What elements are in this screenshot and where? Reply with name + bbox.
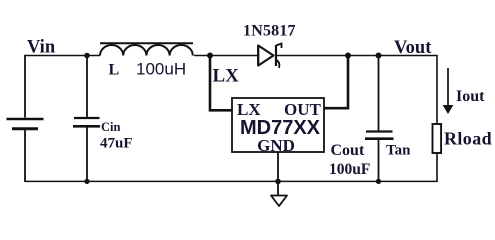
junction: Cin/ground rail node — [84, 179, 89, 184]
diode D1 1N5817 (Schottky) — [258, 44, 281, 69]
wire: Cout bottom lead to ground rail — [378, 140, 380, 182]
svg-text:100uF: 100uF — [329, 161, 370, 178]
wire: ground rail (bottom) — [25, 180, 437, 182]
junction: Vin/Cin node on top rail — [84, 53, 90, 59]
svg-text:47uF: 47uF — [100, 136, 133, 152]
svg-text:Iout: Iout — [456, 88, 485, 105]
wire: top rail from diode cathode to Vout corner — [277, 55, 437, 57]
capacitor Cin — [73, 118, 100, 126]
capacitor Cout (tantalum) — [365, 132, 394, 139]
svg-text:Vout: Vout — [394, 38, 432, 58]
wire: Cout top lead — [378, 56, 380, 131]
wire: top rail from inductor right terminal to diode anode — [194, 55, 258, 57]
svg-text:GND: GND — [257, 136, 295, 155]
IC U1 MD77XX body — [232, 98, 324, 152]
wire: IC OUT pin right and up to output node — [324, 56, 348, 109]
wire: Rload bottom lead to ground rail — [436, 153, 438, 182]
wire: Cin top lead — [86, 56, 88, 118]
current arrow Iout — [443, 68, 454, 114]
resistor Rload — [433, 124, 442, 153]
svg-text:LX: LX — [213, 66, 240, 87]
junction: Cout/ground rail node — [376, 179, 381, 184]
svg-text:L: L — [109, 62, 120, 79]
svg-text:Cin: Cin — [101, 120, 121, 134]
battery (input source) — [7, 119, 44, 129]
junction: LX node on top rail — [207, 53, 213, 59]
wire: top rail from Vin node to inductor left terminal — [25, 55, 100, 57]
junction: GND/ground rail node — [275, 179, 281, 185]
wire: right vertical from top rail down to Rload — [436, 55, 438, 124]
wire: IC GND pin down to ground symbol — [277, 152, 279, 195]
junction: Cout node on top rail — [376, 53, 382, 59]
wire: left vertical from Vin node down to battery + plate — [24, 55, 26, 118]
wire: Cin bottom lead to ground rail — [86, 128, 88, 183]
svg-text:Tan: Tan — [386, 143, 411, 159]
svg-text:Rload: Rload — [444, 129, 492, 149]
wire: LX node down and right into IC LX pin — [210, 56, 232, 111]
inductor L — [100, 43, 193, 55]
svg-text:100uH: 100uH — [136, 60, 186, 79]
svg-text:1N5817: 1N5817 — [243, 23, 296, 40]
ground symbol — [271, 196, 287, 207]
junction: diode-cathode/OUT node on top rail — [345, 53, 351, 59]
svg-text:Vin: Vin — [27, 38, 56, 58]
wire: left vertical from battery - plate down to ground rail — [24, 130, 26, 182]
svg-text:Cout: Cout — [331, 142, 365, 159]
